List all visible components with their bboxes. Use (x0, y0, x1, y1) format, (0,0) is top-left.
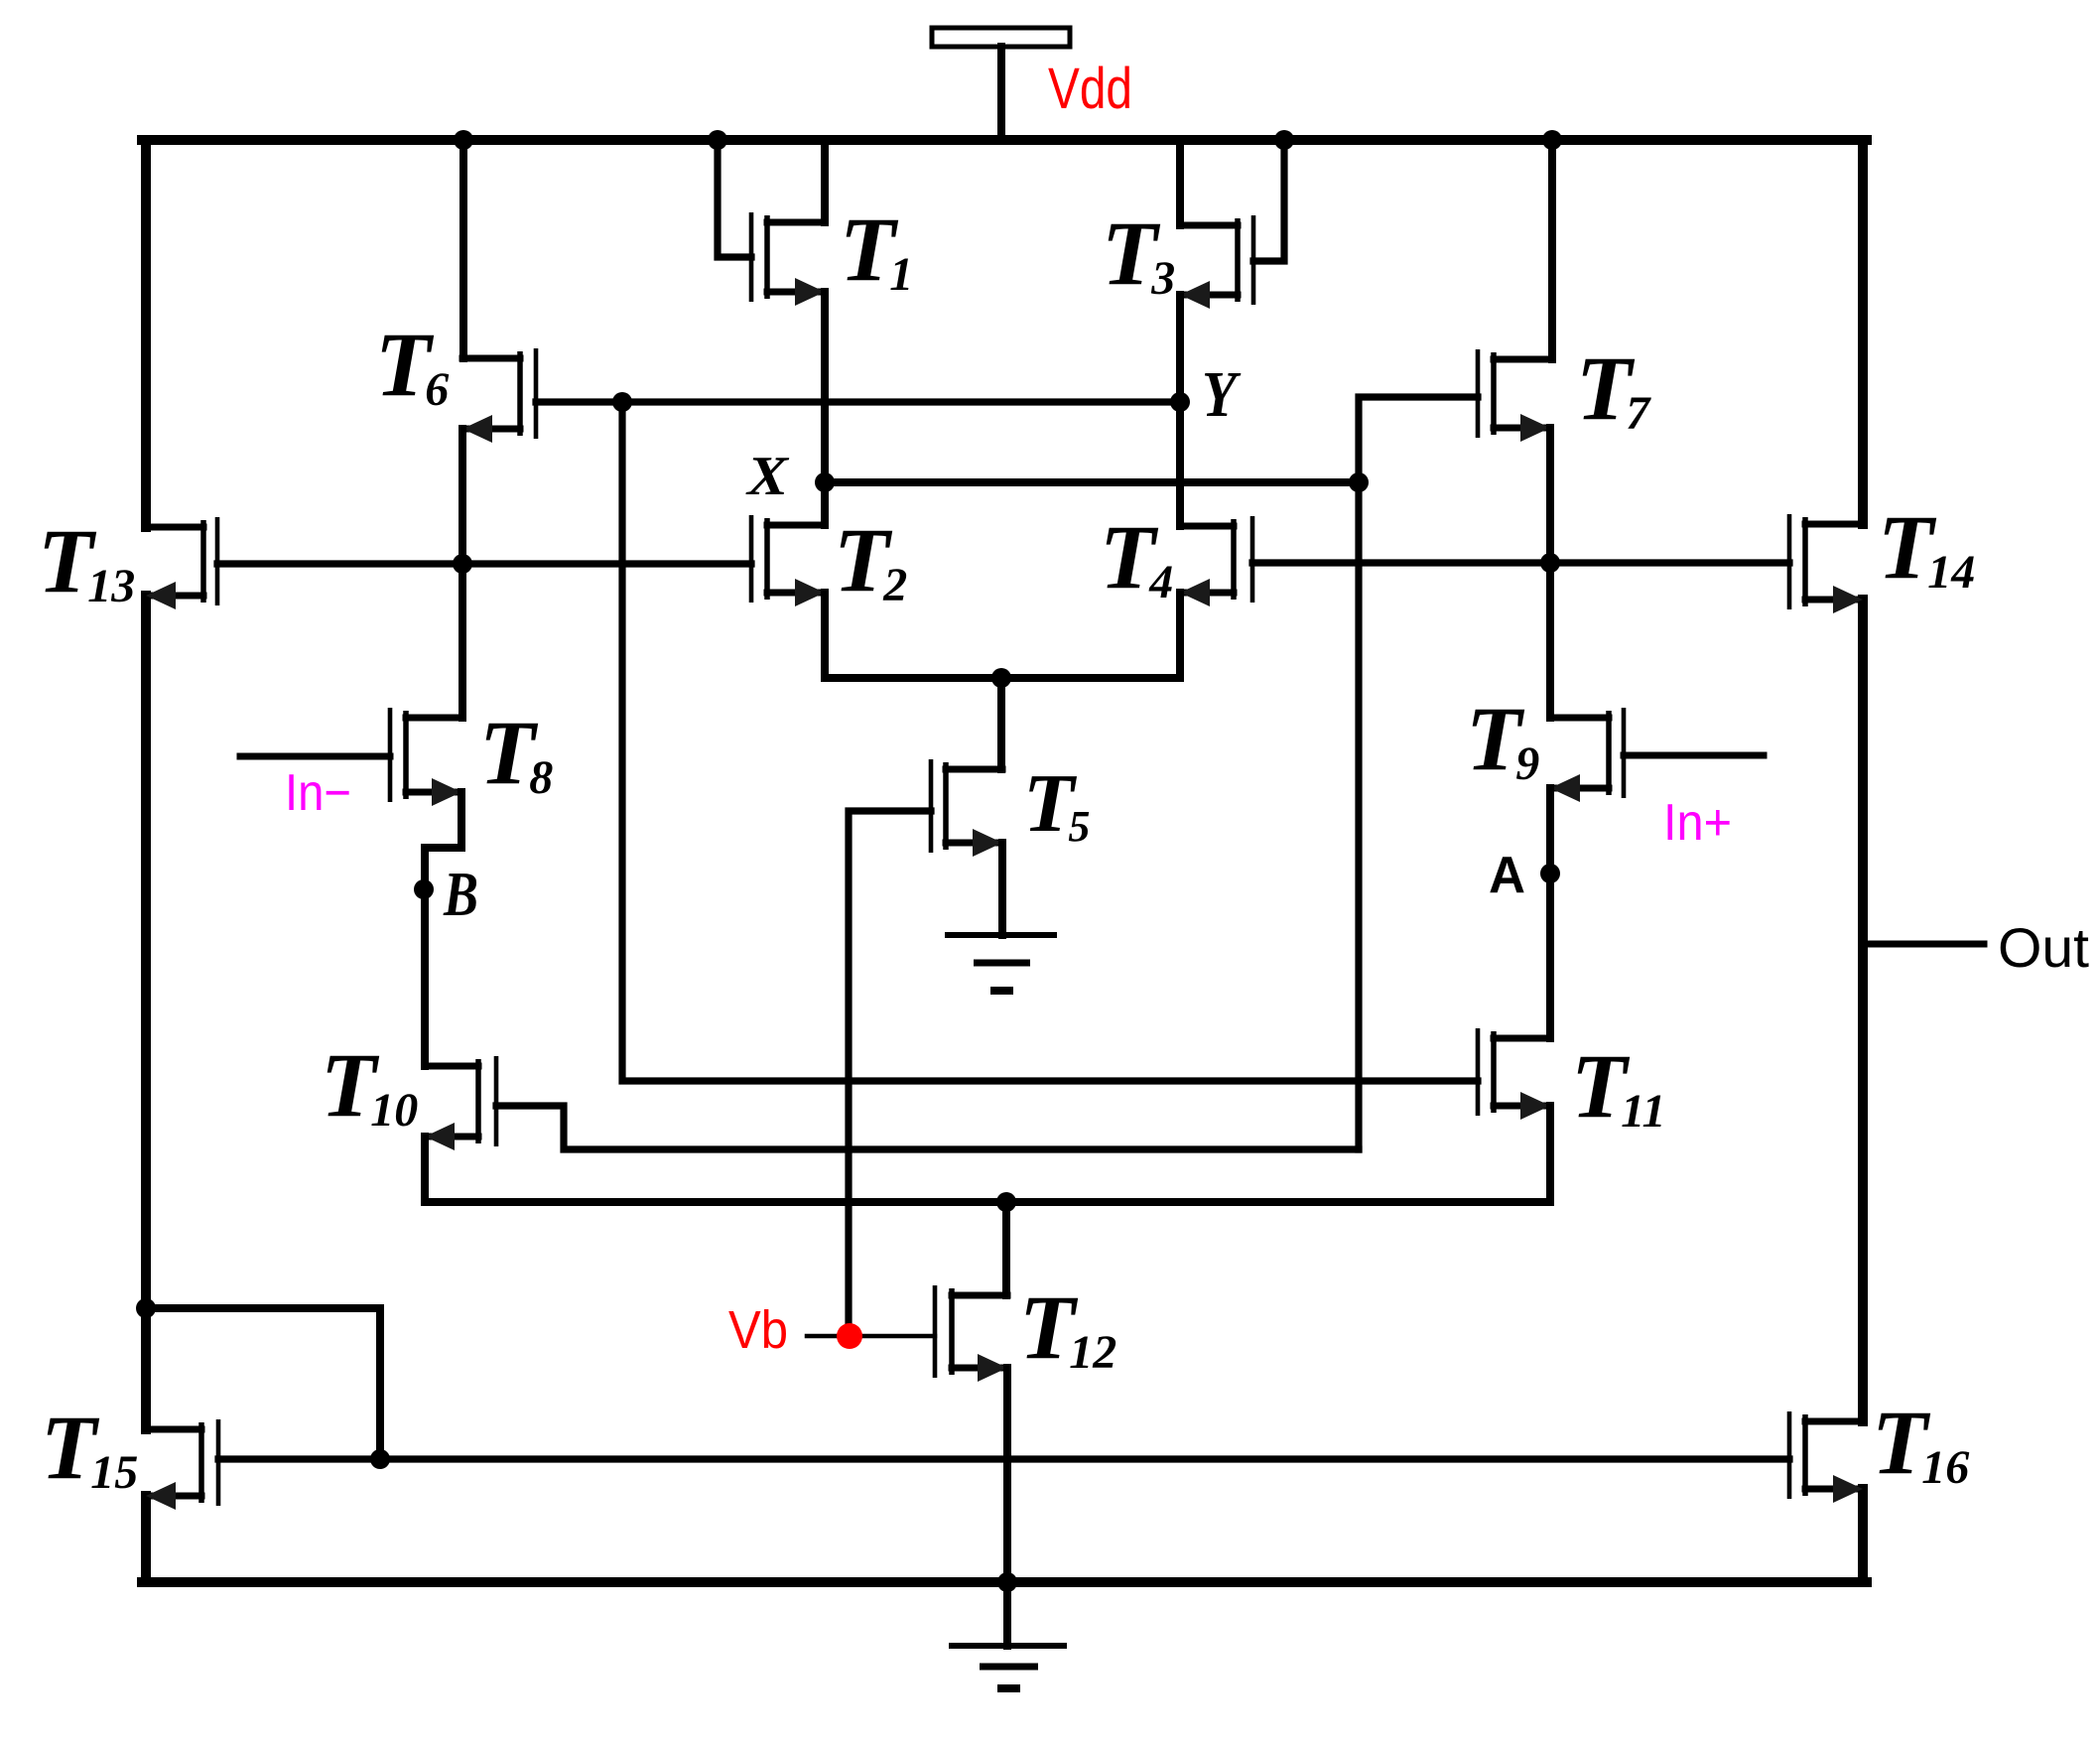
wire: T3 gate to top rail (1253, 140, 1284, 261)
node junction left rail (T15 gate loop) (136, 1298, 156, 1318)
wire: tail down to T5 (997, 678, 1005, 769)
label Vb (728, 1300, 788, 1360)
label T13 (38, 510, 135, 612)
wire: T3 source from top rail (1176, 140, 1184, 225)
wire: T10/T11/T12 source line (425, 1198, 1550, 1206)
transistor T3 (1180, 215, 1253, 309)
node A dot (1540, 864, 1560, 883)
label T11 (1571, 1035, 1666, 1138)
transistor T9 (1550, 708, 1624, 802)
wire: right rail lower segment (T16 drain to bottom rail) (1858, 1489, 1868, 1582)
wire: T5 source to ground (998, 843, 1006, 935)
svg-text:Y: Y (1202, 358, 1242, 431)
node B dot (414, 879, 434, 899)
label T6 (375, 314, 449, 416)
wire: T4 drain down and across (1002, 593, 1180, 678)
wire: T15 gate loop (146, 1308, 380, 1459)
wire: Vdd top rail (142, 135, 1867, 145)
wire: gate line T13-T2 (217, 560, 751, 567)
wire: Vb lead to T12 gate (807, 1334, 935, 1339)
transistor T5 (931, 759, 1002, 857)
node Vb junction dot (red) (837, 1323, 862, 1349)
wire: T7 gate lead to X-line (1359, 397, 1478, 482)
svg-text:X: X (745, 446, 790, 507)
node junction source line to T12 (996, 1192, 1016, 1212)
label Out (1998, 916, 2089, 979)
wire: X vertical down to T10 gate line (1355, 482, 1362, 1149)
wire: right rail middle segment (T14 drain to T16 source) (1858, 600, 1868, 1421)
transistor T4 (1180, 516, 1252, 606)
label A (1489, 847, 1525, 904)
label T15 (41, 1397, 138, 1499)
wire: left rail upper segment (top rail to T13 source) (141, 140, 151, 527)
wire: left rail lower segment (T15 drain to bottom rail) (141, 1496, 151, 1582)
transistor T10 (425, 1056, 496, 1150)
label B (443, 859, 478, 929)
wire: right rail upper segment (top rail to T14 source) (1858, 140, 1868, 524)
node junction tail (991, 668, 1011, 688)
wire: T6 source from top rail (459, 140, 467, 358)
transistor T8 (390, 708, 461, 806)
label In- (285, 764, 351, 822)
wire: T11 drain down to source line (1546, 1106, 1554, 1202)
wire: T2 drain down and across (825, 593, 1002, 678)
wire: T6 gate Y-line (536, 398, 1180, 405)
node X junction dot (815, 472, 835, 492)
power symbol Vdd (bar) (932, 28, 1070, 47)
node junction gate line with T6/T8 line (453, 554, 472, 574)
transistor T13 (146, 517, 217, 609)
label Y (1202, 358, 1242, 431)
wire: bottom gate line T15-T16 (218, 1455, 1789, 1462)
node junction bottom rail to ground (997, 1572, 1017, 1592)
wire: T8 drain jog to node B (425, 792, 461, 1066)
svg-text:A: A (1489, 847, 1525, 904)
node junction on top rail (T1 gate) (708, 130, 727, 150)
wire: Vdd stem (997, 47, 1005, 140)
node junction on top rail (T6 source) (454, 130, 473, 150)
node junction gate line with T7/T9 line (1540, 553, 1560, 573)
wire: T1 drain down to node X (821, 292, 829, 482)
ground symbol at bottom (949, 1646, 1067, 1688)
node junction on top rail (T7 source) (1542, 130, 1562, 150)
node junction on bottom gate line (370, 1449, 390, 1469)
ground symbol under T5 (945, 935, 1057, 991)
label T16 (1872, 1392, 1969, 1494)
svg-text:B: B (443, 859, 478, 929)
wire: T10 drain down to source line (421, 1137, 429, 1202)
wire: T12 drain from source line (1002, 1202, 1010, 1295)
label X (745, 446, 790, 507)
label T7 (1576, 337, 1651, 440)
wire: Out stub (1863, 941, 1984, 948)
label T5 (1023, 757, 1090, 851)
svg-text:Vb: Vb (728, 1300, 788, 1360)
label T8 (479, 702, 553, 804)
node Y junction dot (1170, 392, 1190, 412)
wire: T7 source from top rail (1548, 140, 1556, 359)
transistor T7 (1478, 349, 1550, 442)
wire: T6 drain down to T8 source (459, 429, 466, 718)
svg-text:Vdd: Vdd (1048, 57, 1132, 121)
wire: T12 source down to bottom rail (1003, 1368, 1011, 1582)
transistor T6 (462, 348, 536, 443)
wire: left rail middle segment (T13 drain to T15 source) (141, 596, 151, 1429)
svg-text:In+: In+ (1663, 794, 1732, 852)
wire: T11 gate line from Y-line vertical (622, 402, 1478, 1081)
wire: node X down to T2 source (821, 482, 829, 525)
label T10 (321, 1034, 418, 1137)
label In+ (1663, 794, 1732, 852)
transistor T14 (1789, 514, 1863, 613)
svg-text:Out: Out (1998, 916, 2089, 979)
label T12 (1019, 1276, 1116, 1379)
wire: T5 gate lead (849, 811, 931, 1336)
transistor T2 (751, 515, 825, 606)
wire: node Y down to T4 source (1176, 402, 1184, 526)
label T3 (1102, 202, 1175, 305)
label Vdd (1048, 57, 1132, 121)
wire: T9 drain down to node A and T11 (1546, 788, 1554, 1038)
wire: ground stem (1003, 1582, 1011, 1646)
transistor T12 (935, 1285, 1007, 1382)
node junction on top rail (T3 gate) (1274, 130, 1294, 150)
wire: bottom ground rail (142, 1577, 1867, 1587)
label T14 (1878, 496, 1975, 599)
transistor T1 (751, 212, 825, 306)
node junction X-line right end (1349, 472, 1369, 492)
transistor T16 (1789, 1411, 1863, 1503)
transistor T15 (146, 1419, 218, 1510)
wire: T1 source from top rail (821, 140, 829, 222)
svg-text:In−: In− (285, 764, 351, 822)
label T1 (840, 199, 913, 301)
label T4 (1100, 506, 1173, 608)
wire: T1 gate to top rail (718, 140, 751, 257)
transistor T11 (1478, 1028, 1550, 1120)
wire: X line (825, 478, 1359, 486)
label T2 (834, 509, 907, 611)
wire: In+ lead (1624, 752, 1764, 759)
wire: T7 drain down to T9 source (1546, 428, 1554, 718)
wire: T10 gate lead to X vertical (496, 1106, 1359, 1149)
wire: In- lead (240, 753, 390, 760)
wire: gate line T4-T14 (1252, 559, 1789, 566)
wire: T3 drain down to node Y (1176, 295, 1184, 402)
label T9 (1466, 688, 1539, 790)
node junction on Y-line (to T11 gate) (612, 392, 632, 412)
